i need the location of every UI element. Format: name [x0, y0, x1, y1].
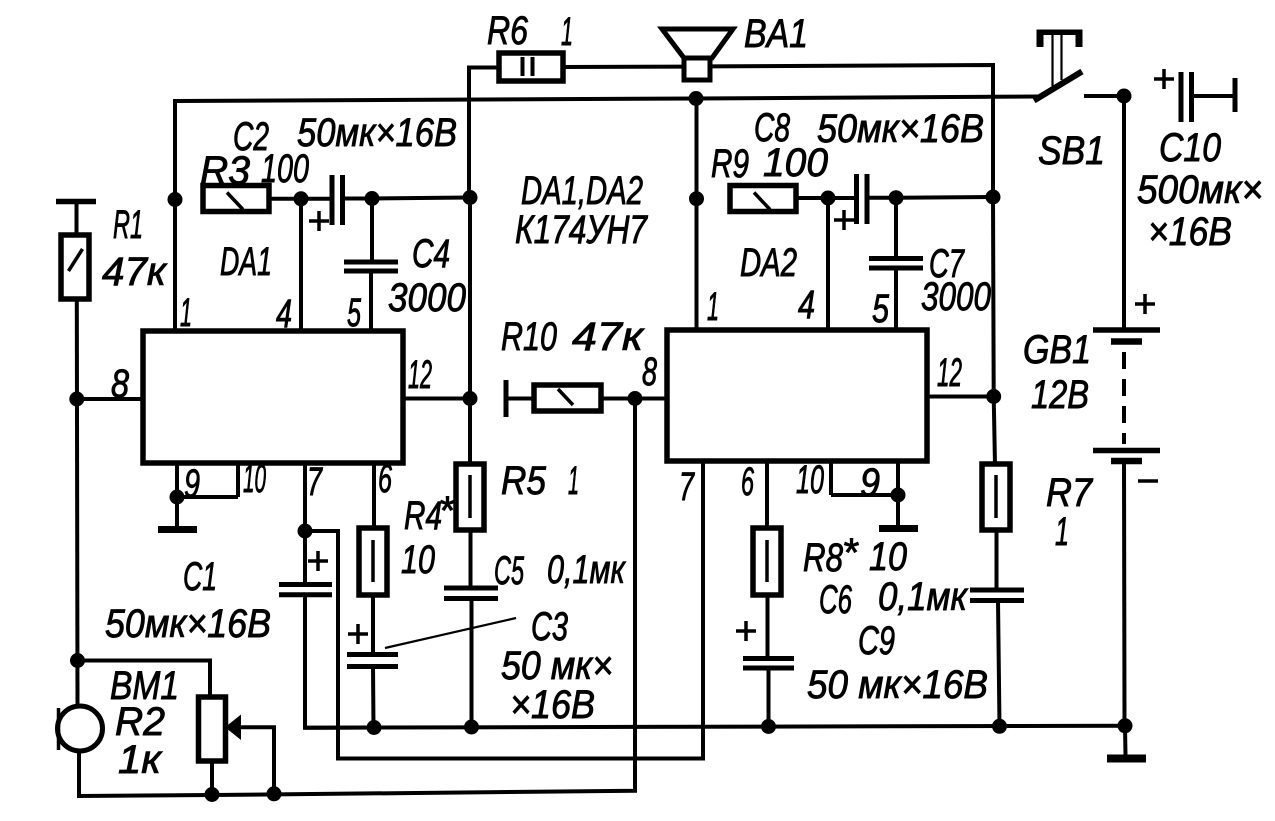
wire C7 bottom lead to DA2 pin 5 — [894, 268, 898, 330]
svg-text:0,1мк: 0,1мк — [547, 548, 627, 592]
label R5 value — [501, 459, 579, 503]
svg-text:7: 7 — [307, 460, 323, 504]
label GB1 12В — [1023, 328, 1091, 417]
svg-text:47к: 47к — [572, 315, 645, 359]
svg-text:12: 12 — [408, 353, 432, 397]
capacitor C9 plates (electrolytic) — [743, 659, 794, 669]
svg-text:C3: C3 — [531, 605, 568, 649]
microphone BM1 — [58, 706, 103, 751]
pin labels DA1 top — [180, 291, 361, 336]
wire DA2 pin 12 — [927, 395, 994, 399]
svg-text:9: 9 — [184, 462, 200, 506]
svg-text:10: 10 — [796, 458, 824, 502]
resistor R6 — [499, 53, 563, 81]
svg-text:*: * — [842, 531, 859, 575]
node junction C2 / C4 / DA1 pin 5 — [365, 191, 380, 206]
switch SB1 lever — [1034, 72, 1082, 101]
label R10 value — [501, 315, 645, 359]
label R3 value — [200, 147, 309, 193]
wire R10 left lead — [506, 397, 534, 401]
wire top output line left (R6 left lead, corner down into x=470 rail) — [469, 68, 500, 198]
svg-text:5: 5 — [347, 291, 361, 335]
node junction R3 left / rail — [168, 192, 183, 207]
svg-text:К174УН7: К174УН7 — [515, 208, 648, 252]
svg-text:50мк×16В: 50мк×16В — [105, 602, 271, 646]
label R7 value — [1046, 471, 1094, 554]
potentiometer R2 wiper arrow — [225, 715, 274, 795]
svg-text:6: 6 — [741, 460, 754, 504]
node junction left rail / DA1 pin 8 — [69, 392, 84, 407]
resistor R4 (vertical, bar mark) — [359, 528, 387, 595]
label R4 value — [401, 489, 455, 582]
node junction R9 left / pin1 riser — [689, 191, 704, 206]
svg-text:4: 4 — [276, 292, 292, 336]
wire linking pins 9 and 10 — [177, 495, 238, 499]
polarity plus of C2 — [309, 211, 329, 231]
node junction R10 / DA2 pin 8 / bottom rail riser — [628, 391, 643, 406]
svg-text:5: 5 — [872, 287, 890, 331]
node junction R9 / C8 / DA2 pin 4 — [821, 191, 836, 206]
label BM1 R2 1к — [110, 664, 179, 782]
potentiometer R2 body — [199, 697, 226, 761]
capacitor C7 plates — [869, 259, 923, 269]
node junction speaker-return rail / C8 wire — [986, 190, 1001, 205]
svg-text:47к: 47к — [102, 250, 168, 294]
wire C3 bottom lead — [371, 666, 376, 728]
node junction DA1 pin 12 / x=470 rail — [463, 391, 478, 406]
polarity plus of C3 — [348, 624, 368, 644]
wire C5 bottom lead to mid rail — [470, 598, 474, 727]
battery GB1 cell 1 long plate — [1093, 327, 1160, 333]
svg-text:100: 100 — [763, 141, 828, 185]
wire DA1 pin 4 riser — [299, 199, 303, 331]
svg-text:R10: R10 — [501, 315, 557, 359]
wire R2 bottom lead — [210, 761, 214, 795]
svg-text:C6: C6 — [819, 578, 852, 622]
label C8 value — [754, 106, 984, 151]
battery GB1 polarity minus — [1138, 479, 1158, 483]
wire node to speaker-return rail — [896, 195, 993, 200]
svg-text:1: 1 — [561, 10, 573, 54]
label C3 value — [501, 605, 613, 727]
svg-text:100: 100 — [261, 147, 309, 191]
callout line from C3 label — [385, 618, 516, 648]
resistor R1 (variable, slash) — [61, 235, 89, 299]
wire R10 right lead to node — [601, 397, 635, 401]
capacitor C5 plates — [444, 588, 498, 599]
node junction C6 / mid rail — [992, 719, 1007, 734]
node junction battery / mid rail / ground — [1118, 718, 1133, 733]
svg-text:6: 6 — [378, 457, 392, 501]
pin labels DA2 top — [707, 283, 890, 331]
svg-text:1: 1 — [568, 459, 579, 503]
wire R8 to C9 — [766, 595, 770, 658]
wire rail to R7 — [994, 397, 995, 466]
svg-text:50 мк×: 50 мк× — [501, 644, 613, 688]
wire bottom rail to R10 riser — [212, 399, 635, 796]
capacitor C3 plates (electrolytic) — [347, 655, 398, 667]
svg-text:1: 1 — [707, 285, 719, 329]
wire microphone bottom to bottom rail — [79, 750, 212, 796]
terminal bar right of C10 — [1233, 78, 1238, 112]
node junction DA2 pin 12 / rail — [986, 389, 1001, 404]
svg-text:*: * — [438, 489, 455, 533]
ground symbol at battery minus — [1107, 726, 1146, 759]
resistor R9 (with slash) — [730, 186, 796, 212]
svg-text:DA1,DA2: DA1,DA2 — [521, 169, 643, 213]
label R6 — [487, 9, 573, 54]
wire R5 to C5 — [469, 530, 473, 586]
node junction pin 7 / C1 / link branch — [298, 524, 313, 539]
pin labels DA2 bottom — [679, 458, 880, 509]
capacitor C2 plates (electrolytic) — [332, 175, 343, 225]
wire R4 to C3 — [371, 595, 375, 652]
wire DA1 pin 7 drop — [303, 463, 307, 531]
label R9 value — [711, 141, 828, 186]
label DA1,DA2 К174УН7 — [515, 169, 648, 252]
svg-text:1к: 1к — [118, 738, 163, 782]
node junction C9 / mid rail — [761, 719, 776, 734]
battery GB1 cell 1 short plate — [1111, 338, 1142, 345]
op-amp IC DA2 box — [667, 330, 927, 461]
polarity plus of C9 — [736, 621, 756, 641]
node junction left rail / R2 branch — [70, 653, 85, 668]
wire node to x=470 rail — [372, 198, 470, 199]
wire R7 to C6 — [995, 530, 999, 589]
label C5 value — [494, 548, 627, 593]
op-amp IC DA1 box — [143, 331, 403, 463]
svg-text:R6: R6 — [487, 9, 529, 53]
wire C9 bottom lead — [767, 668, 771, 727]
svg-text:3000: 3000 — [388, 276, 466, 320]
svg-text:1: 1 — [1055, 510, 1069, 554]
wire C7 top lead (pin 5 riser upper) — [894, 198, 898, 257]
svg-text:10: 10 — [869, 535, 907, 579]
label C9 value — [807, 619, 988, 707]
svg-text:DA1: DA1 — [220, 240, 272, 284]
svg-text:12: 12 — [937, 351, 962, 395]
resistor R10 (with slash) — [534, 385, 601, 411]
wire C10 right lead to terminal — [1191, 94, 1234, 98]
pin labels DA1 bottom — [184, 457, 392, 506]
wire pin7 branch to DA2 pin7 (long link) — [305, 461, 703, 759]
node junction output wire / x=470 rail — [463, 190, 478, 205]
svg-text:9: 9 — [860, 461, 880, 505]
wire node to C8 left plate — [828, 196, 855, 200]
wire battery top lead — [1122, 96, 1126, 328]
svg-text:8: 8 — [111, 362, 130, 406]
label C2 value — [233, 111, 457, 159]
wire DA2 pin 4 riser — [826, 198, 830, 330]
wire node to C2 left plate — [301, 197, 330, 201]
label C4 value — [388, 232, 466, 320]
node junction C8 / C7 / DA2 pin 5 — [889, 190, 904, 205]
svg-text:4: 4 — [798, 283, 815, 327]
wire DA2 pin 10 drop — [829, 461, 833, 495]
battery GB1 cell 2 short plate — [1111, 458, 1142, 465]
svg-text:×16В: ×16В — [1148, 210, 1232, 254]
wire C4 bottom lead to DA1 pin 5 — [369, 271, 373, 331]
node junction C5 / mid rail — [464, 720, 479, 735]
wire switch to C10 node — [1084, 94, 1124, 98]
battery GB1 polarity plus — [1135, 294, 1155, 314]
wire DA1 pin 6 drop — [372, 463, 376, 529]
node junction R2 bottom / bottom rail — [205, 787, 220, 802]
wire DA2 pin 6 drop — [765, 461, 769, 529]
wire C1 top lead — [303, 531, 307, 583]
svg-text:SB1: SB1 — [1038, 129, 1105, 173]
svg-text:12В: 12В — [1031, 373, 1089, 417]
speaker BA1 — [662, 29, 733, 80]
svg-text:8: 8 — [642, 350, 658, 394]
wire C8 right plate to node — [867, 196, 896, 200]
label C10 — [1137, 126, 1263, 254]
svg-text:R3: R3 — [200, 149, 250, 193]
wire speaker right to corner, down to C8-output junction — [710, 65, 993, 197]
label C7 value — [921, 242, 991, 319]
node junction pin9/ground — [170, 490, 185, 505]
node junction DA2 pin9/ground — [891, 488, 906, 503]
wire C4 top lead (pin 5 riser upper) — [370, 199, 374, 261]
svg-text:50 мк×16В: 50 мк×16В — [807, 663, 988, 707]
switch SB1 actuator stem — [1053, 34, 1062, 86]
svg-text:R1: R1 — [113, 203, 143, 247]
node junction wiper / bottom rail — [267, 786, 282, 801]
wire R6 to speaker BA1 — [563, 65, 684, 69]
label C1 value — [105, 555, 271, 646]
terminal bar left of R10 — [504, 380, 509, 417]
svg-text:500мк×: 500мк× — [1137, 168, 1263, 212]
svg-text:R8: R8 — [803, 536, 844, 580]
svg-text:R9: R9 — [711, 142, 749, 186]
label R8 value — [803, 531, 907, 580]
wire DA2 pin 9 drop — [896, 461, 900, 495]
wire DA2 pin 8 — [635, 397, 667, 401]
svg-text:C1: C1 — [183, 555, 217, 599]
capacitor C4 plates — [344, 262, 398, 271]
wire R9 right to node — [796, 196, 828, 200]
polarity plus of C10 — [1154, 69, 1174, 89]
svg-text:7: 7 — [679, 465, 695, 509]
wire R3 right to node — [269, 197, 301, 201]
switch SB1 button bar — [1037, 30, 1083, 48]
resistor R8 (vertical, bar mark) — [753, 528, 781, 595]
wire DA1 pin 8 — [77, 397, 143, 401]
wire supply line B (from DA1 top-left corner to switch SB1) — [175, 97, 1038, 102]
mid ground rail — [305, 726, 1125, 728]
node junction line B / DA2 pin1 drop — [689, 91, 704, 106]
svg-text:10: 10 — [243, 457, 266, 501]
svg-text:DA2: DA2 — [740, 241, 797, 285]
svg-text:3000: 3000 — [921, 275, 991, 319]
wire DA1 pin 10 drop — [236, 463, 240, 497]
label R1 value — [102, 203, 168, 294]
svg-text:1: 1 — [180, 291, 192, 335]
svg-text:R4: R4 — [404, 494, 442, 538]
capacitor C8 plates (electrolytic) — [857, 174, 868, 224]
capacitor C1 plates (electrolytic) — [279, 585, 332, 595]
wire speaker-return rail down to DA2 pin 12 — [991, 197, 996, 397]
wire DA1 pin 1 riser (top-left rail) — [173, 99, 177, 331]
svg-text:C4: C4 — [412, 232, 450, 276]
svg-text:0,1мк: 0,1мк — [878, 575, 969, 619]
svg-text:50мк×16В: 50мк×16В — [817, 107, 984, 151]
terminal bar above R1 — [56, 199, 96, 205]
label C6 value — [819, 575, 969, 622]
svg-text:C5: C5 — [494, 549, 524, 593]
svg-text:50мк×16В: 50мк×16В — [297, 111, 457, 155]
battery GB1 dashed middle (multi-cell) — [1122, 352, 1126, 444]
wire x=470 rail upper (crosses supply line B, down to C2-output junction) — [468, 198, 472, 399]
wire R2 top lead from left rail — [78, 661, 211, 699]
svg-text:C10: C10 — [1159, 126, 1221, 170]
svg-text:R7: R7 — [1046, 471, 1094, 515]
polarity plus of C1 — [308, 551, 328, 571]
polarity plus of C8 — [834, 210, 854, 230]
wire DA2 pin 1 riser — [695, 99, 699, 331]
wire DA1 pin 12 — [403, 397, 470, 401]
resistor R3 (with slash) — [203, 186, 269, 212]
resistor R7 (vertical, bar mark) — [982, 464, 1010, 530]
resistor R5 (vertical, bar mark) — [456, 464, 484, 530]
wire C1 bottom lead to mid rail corner — [305, 594, 375, 728]
svg-text:10: 10 — [401, 538, 435, 582]
ground symbol at DA1 pins 9-10 — [158, 497, 197, 530]
svg-text:BA1: BA1 — [744, 12, 808, 56]
wire C2 right plate to node — [343, 197, 372, 201]
wire battery bottom lead to ground rail — [1122, 461, 1127, 726]
wire C6 bottom lead to mid rail — [998, 600, 1000, 726]
capacitor C6 plates — [970, 590, 1024, 601]
wire terminal to R1 — [75, 201, 79, 235]
wire left rail R1 to microphone — [75, 299, 80, 707]
svg-text:C9: C9 — [858, 619, 895, 663]
ground symbol at DA2 pins 9-10 — [879, 495, 918, 529]
svg-text:GB1: GB1 — [1023, 328, 1091, 372]
node junction R3 / C2 / DA1 pin 4 — [294, 191, 309, 206]
battery GB1 cell 2 long plate — [1093, 448, 1160, 454]
svg-text:×16В: ×16В — [510, 683, 595, 727]
node junction switch / C10 / battery — [1117, 89, 1132, 104]
capacitor C10 plates — [1181, 72, 1192, 122]
wire x=470 rail to R5 — [468, 399, 472, 466]
svg-text:R5: R5 — [501, 459, 547, 503]
wire DA1 pin 9 drop — [175, 463, 179, 497]
wire linking DA2 pins 10 and 9 — [831, 493, 898, 497]
node junction C3 / mid rail — [367, 720, 382, 735]
